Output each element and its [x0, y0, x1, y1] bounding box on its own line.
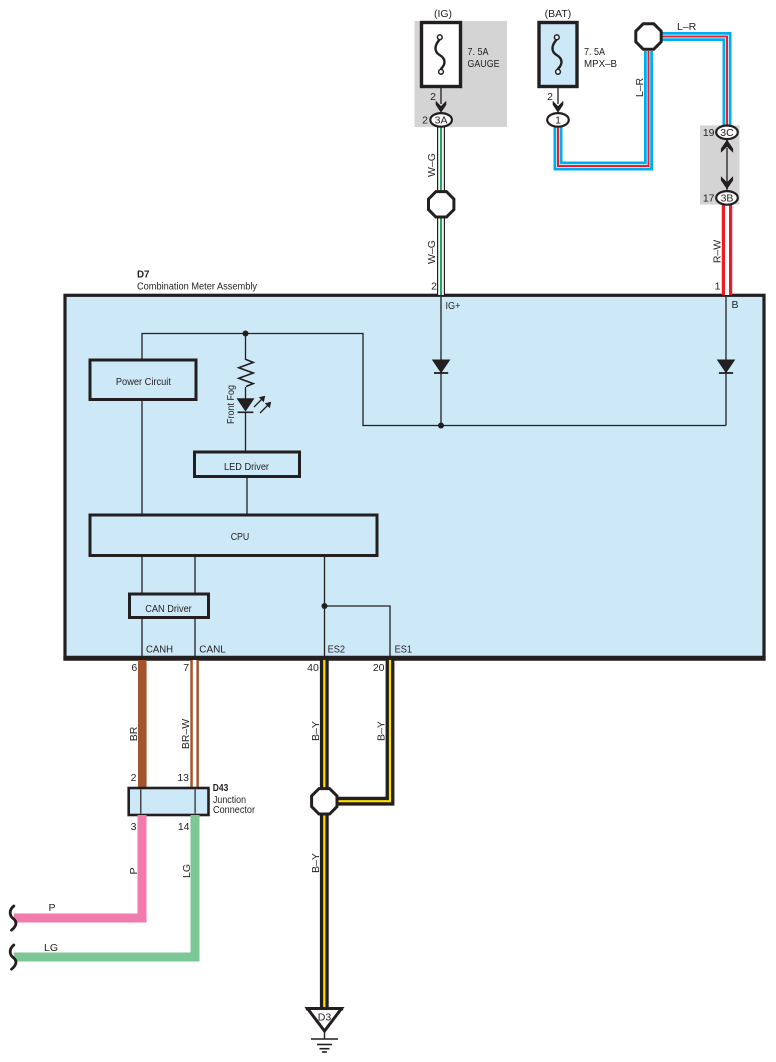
- wire LED to LED Driver: [245, 412, 247, 452]
- ground bars: [311, 1039, 338, 1052]
- svg-text:LED Driver: LED Driver: [224, 461, 269, 473]
- ground D3 triangle: [306, 1009, 343, 1032]
- svg-text:2: 2: [430, 91, 436, 103]
- svg-text:IG+: IG+: [446, 300, 461, 312]
- svg-text:LG: LG: [181, 864, 193, 878]
- svg-text:(IG): (IG): [434, 8, 452, 20]
- svg-text:1: 1: [555, 114, 561, 126]
- LED front fog indicator: [237, 396, 272, 413]
- svg-text:B: B: [732, 299, 739, 311]
- svg-text:3: 3: [131, 821, 137, 833]
- svg-text:B–Y: B–Y: [310, 721, 322, 741]
- svg-text:1: 1: [715, 281, 721, 293]
- wire CPU to CAN Driver (CANH): [141, 555, 143, 594]
- junction link 3C-3B line: [726, 148, 728, 182]
- connector oval 3C: [716, 126, 738, 140]
- svg-text:20: 20: [373, 662, 385, 674]
- wire W-G segment 3A to octagon E: [437, 126, 445, 192]
- svg-text:(BAT): (BAT): [545, 8, 572, 20]
- octagon splice A (L-R): [636, 24, 661, 49]
- svg-text:Connector: Connector: [213, 804, 255, 816]
- resistor R (front fog LED series): [239, 360, 253, 387]
- svg-text:BR: BR: [128, 726, 140, 741]
- svg-text:P: P: [49, 902, 56, 914]
- LED Driver block: [195, 452, 300, 477]
- svg-text:Power Circuit: Power Circuit: [116, 376, 171, 388]
- svg-text:W–G: W–G: [426, 153, 438, 177]
- gray relay-block background (IG fuse area): [415, 21, 508, 127]
- svg-text:D7: D7: [137, 269, 150, 281]
- svg-text:7. 5A: 7. 5A: [468, 46, 489, 58]
- svg-text:3B: 3B: [721, 192, 734, 204]
- junction dot IG+ diode: [438, 423, 444, 429]
- ground stem: [324, 1031, 326, 1039]
- svg-text:2: 2: [431, 281, 437, 293]
- D43 internal pin line 13-14: [194, 790, 196, 814]
- svg-text:B–Y: B–Y: [376, 721, 388, 741]
- D7 combination meter assembly box: [65, 295, 764, 658]
- fuse element IG: [435, 35, 444, 74]
- wire LG D43 pin 14 to cut end: [14, 815, 195, 957]
- wire W-G segment octagon to pin 2 IG+: [437, 217, 445, 295]
- wire CAN Driver to pin 7 CANL: [194, 617, 196, 656]
- wire CPU to ES pins: [324, 555, 326, 656]
- junction dot resistor branch: [243, 331, 249, 337]
- wire BR pin 6 to D43 pin 2: [138, 660, 147, 789]
- svg-text:B–Y: B–Y: [310, 853, 322, 873]
- wire L-R connector 1 to octagon A: [558, 51, 649, 166]
- diode D_B (anode B): [717, 360, 736, 374]
- junction dot ES branch: [322, 603, 328, 609]
- wire P D43 pin 3 to cut end: [14, 815, 142, 918]
- octagon splice E (W-G): [429, 192, 454, 217]
- svg-text:MPX–B: MPX–B: [584, 58, 617, 70]
- wire resistor branch: [245, 334, 247, 361]
- connector oval 1: [547, 113, 569, 127]
- svg-text:R–W: R–W: [712, 240, 724, 263]
- svg-text:2: 2: [131, 772, 137, 784]
- connector oval 3A: [430, 113, 452, 127]
- diode D_IG (anode IG+): [432, 360, 451, 374]
- wire L-R octagon A to 3C: [662, 37, 727, 127]
- wire resistor to LED: [245, 387, 247, 399]
- svg-text:L–R: L–R: [634, 77, 646, 97]
- wire LED Driver to CPU: [246, 476, 248, 515]
- svg-text:Combination Meter Assembly: Combination Meter Assembly: [137, 281, 258, 293]
- wire branch ES1: [325, 606, 391, 656]
- svg-text:7. 5A: 7. 5A: [584, 46, 605, 58]
- svg-text:CANH: CANH: [146, 644, 173, 656]
- wire W-G fuse to 3A (thin black): [440, 74, 442, 104]
- CPU block: [90, 515, 377, 556]
- D7 box bottom edge (thick): [63, 656, 765, 661]
- arrow into connector 3A: [436, 101, 447, 117]
- svg-text:17: 17: [703, 193, 715, 205]
- svg-text:W–G: W–G: [426, 240, 438, 264]
- svg-text:13: 13: [177, 772, 189, 784]
- wire CPU to CAN Driver (CANL): [194, 555, 196, 594]
- svg-text:CANL: CANL: [199, 644, 226, 656]
- fuse box (IG) 7.5A GAUGE: [422, 23, 461, 87]
- cut-wire squiggle P: [10, 906, 16, 930]
- svg-text:L–R: L–R: [677, 21, 697, 33]
- CAN Driver block: [130, 594, 209, 618]
- cut-wire squiggle LG: [10, 945, 16, 969]
- wire B-Y pin 20 to octagon splice B: [337, 660, 391, 801]
- svg-text:D43: D43: [213, 782, 229, 794]
- svg-text:ES2: ES2: [328, 644, 346, 656]
- svg-text:3A: 3A: [435, 114, 448, 126]
- wire BR-W pin 7 to D43 pin 13: [190, 660, 199, 789]
- svg-text:2: 2: [547, 91, 553, 103]
- octagon splice B (B-Y): [312, 789, 337, 814]
- arrow down toward 3B: [721, 176, 733, 189]
- svg-text:40: 40: [307, 662, 319, 674]
- svg-text:14: 14: [178, 821, 190, 833]
- wire BAT fuse to connector 1 (thin black): [557, 74, 559, 104]
- wire B-Y pin 40 to octagon splice B: [320, 660, 329, 789]
- fuse element BAT: [552, 35, 561, 74]
- svg-text:6: 6: [131, 662, 137, 674]
- wire B pin to node: [725, 297, 727, 426]
- svg-text:LG: LG: [44, 942, 58, 954]
- svg-text:2: 2: [422, 115, 428, 127]
- Power Circuit block: [90, 360, 196, 400]
- fuse box (BAT) 7.5A MPX-B: [539, 23, 577, 87]
- arrow up toward 3C: [721, 139, 733, 152]
- svg-text:D3: D3: [318, 1012, 332, 1024]
- svg-text:BR–W: BR–W: [180, 719, 192, 749]
- svg-text:CAN Driver: CAN Driver: [145, 603, 192, 615]
- connector oval 3B: [716, 191, 738, 205]
- svg-text:P: P: [128, 867, 140, 874]
- svg-text:7: 7: [183, 662, 189, 674]
- svg-text:Front Fog: Front Fog: [225, 385, 237, 424]
- wire Power Circuit to CPU: [141, 399, 143, 515]
- svg-text:GAUGE: GAUGE: [468, 58, 500, 70]
- wire B-Y octagon splice B to ground D3: [320, 814, 329, 1009]
- gray junction-block background (3C/3B area): [700, 125, 740, 204]
- wire IG+ pin to node: [440, 297, 442, 426]
- junction connector D43 box: [129, 788, 209, 815]
- svg-text:CPU: CPU: [231, 531, 250, 543]
- svg-text:3C: 3C: [720, 127, 734, 139]
- wire R-W 3B to pin 1 B: [722, 204, 732, 295]
- wire CAN Driver to pin 6 CANH: [141, 617, 143, 656]
- D43 internal pin line 2-3: [140, 790, 142, 814]
- arrow into connector 1: [553, 101, 564, 117]
- svg-text:ES1: ES1: [395, 644, 413, 656]
- svg-text:19: 19: [703, 127, 715, 139]
- node line from Power Circuit top: [142, 334, 726, 426]
